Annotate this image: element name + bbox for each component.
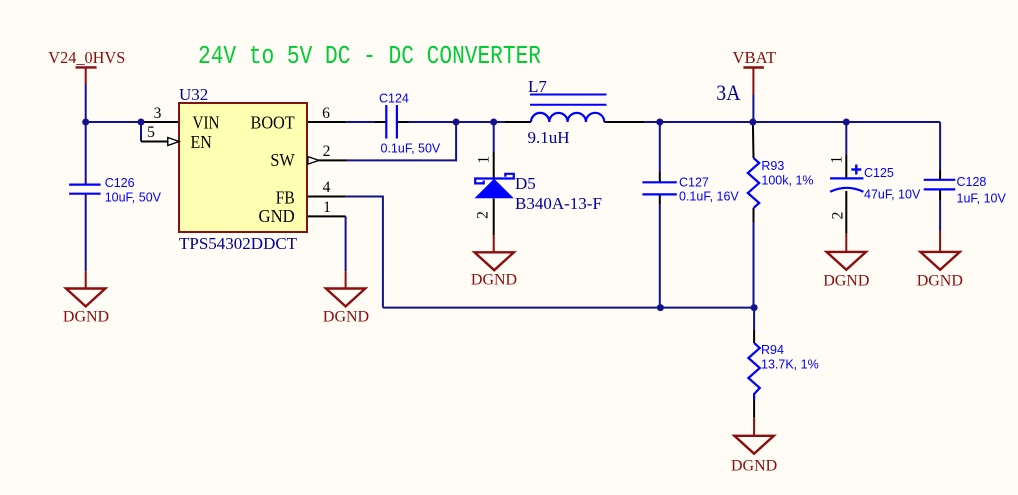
svg-text:5: 5 (147, 124, 155, 141)
svg-text:6: 6 (322, 105, 330, 122)
svg-text:0.1uF, 16V: 0.1uF, 16V (679, 190, 739, 204)
svg-text:47uF, 10V: 47uF, 10V (864, 188, 921, 202)
svg-text:DGND: DGND (917, 273, 963, 290)
svg-text:9.1uH: 9.1uH (528, 128, 570, 147)
svg-text:3: 3 (154, 105, 162, 122)
svg-text:2: 2 (474, 211, 491, 219)
svg-text:C128: C128 (957, 175, 987, 189)
svg-text:100k, 1%: 100k, 1% (761, 174, 813, 188)
svg-text:L7: L7 (528, 77, 547, 96)
svg-text:FB: FB (276, 188, 295, 208)
svg-text:U32: U32 (179, 85, 208, 104)
svg-text:B340A-13-F: B340A-13-F (515, 194, 602, 213)
svg-text:DGND: DGND (323, 309, 369, 326)
svg-text:VIN: VIN (193, 113, 220, 133)
svg-text:C125: C125 (864, 166, 894, 180)
svg-text:1: 1 (476, 156, 493, 164)
svg-text:4: 4 (323, 179, 331, 196)
svg-text:C124: C124 (379, 92, 409, 106)
svg-text:13.7K, 1%: 13.7K, 1% (761, 358, 819, 372)
svg-text:2: 2 (323, 143, 331, 160)
svg-text:24V to 5V DC - DC CONVERTER: 24V to 5V DC - DC CONVERTER (198, 42, 541, 71)
svg-text:R94: R94 (761, 343, 784, 357)
svg-text:1: 1 (323, 199, 331, 216)
svg-text:V24_0HVS: V24_0HVS (48, 48, 125, 67)
svg-text:2: 2 (830, 212, 847, 220)
svg-text:C126: C126 (105, 176, 135, 190)
svg-text:VBAT: VBAT (733, 48, 777, 67)
svg-text:DGND: DGND (63, 309, 109, 326)
svg-text:3A: 3A (716, 80, 740, 105)
svg-text:1uF, 10V: 1uF, 10V (957, 192, 1007, 206)
svg-text:1: 1 (828, 156, 845, 164)
svg-text:0.1uF, 50V: 0.1uF, 50V (381, 142, 441, 156)
svg-text:DGND: DGND (471, 272, 517, 289)
svg-text:10uF, 50V: 10uF, 50V (105, 191, 162, 205)
svg-text:R93: R93 (761, 159, 784, 173)
svg-text:EN: EN (191, 132, 212, 152)
svg-text:DGND: DGND (823, 273, 869, 290)
svg-text:TPS54302DDCT: TPS54302DDCT (179, 234, 298, 253)
svg-text:D5: D5 (515, 174, 536, 193)
svg-text:BOOT: BOOT (251, 113, 295, 133)
svg-text:GND: GND (259, 206, 295, 226)
svg-text:DGND: DGND (731, 458, 777, 475)
svg-text:SW: SW (270, 150, 294, 170)
svg-text:C127: C127 (679, 176, 709, 190)
